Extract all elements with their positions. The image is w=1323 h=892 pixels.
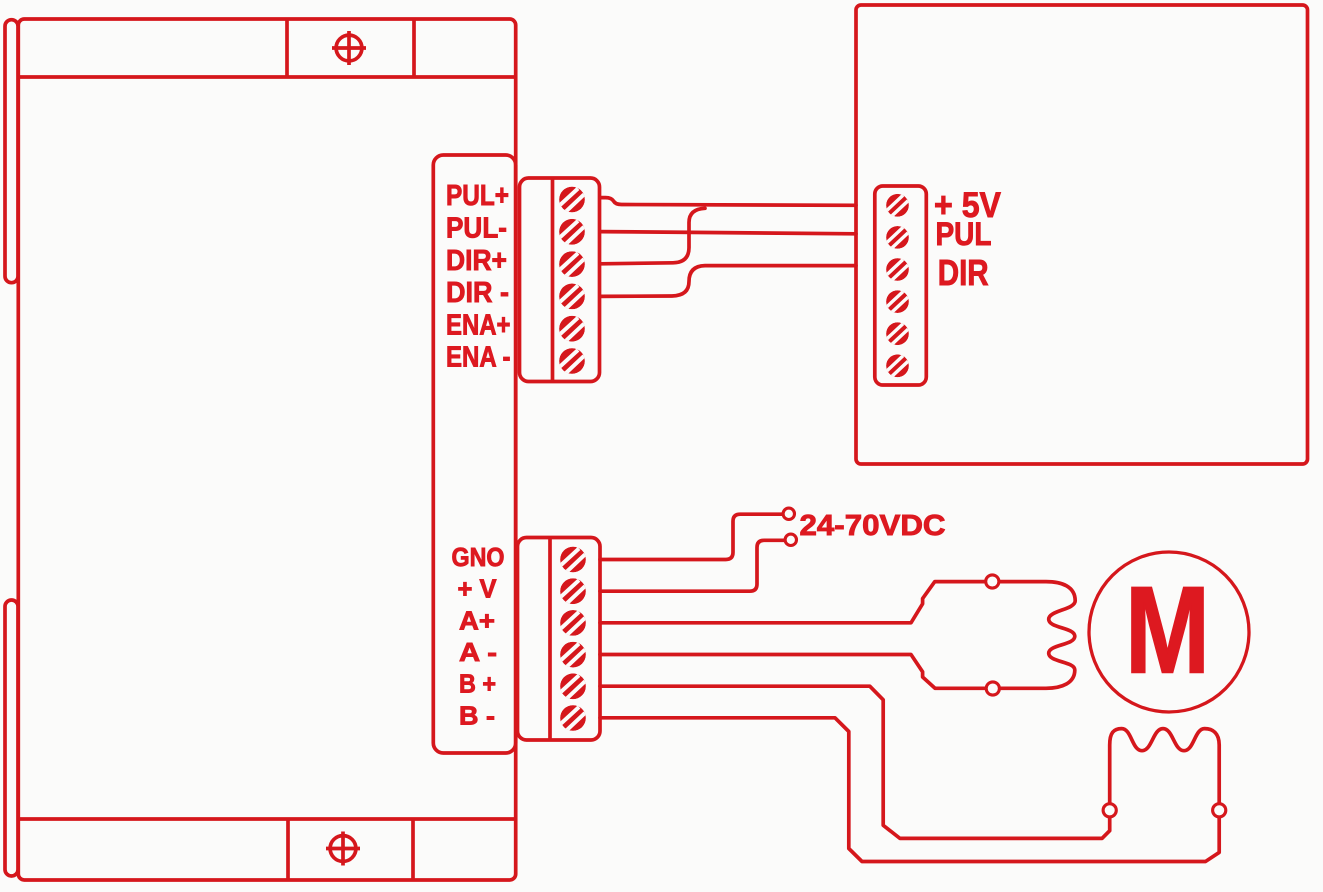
- svg-text:A -: A -: [459, 637, 497, 667]
- svg-text:M: M: [1125, 563, 1210, 700]
- svg-text:+ V: + V: [458, 574, 498, 604]
- svg-text:DIR -: DIR -: [446, 277, 509, 309]
- svg-text:PUL-: PUL-: [446, 213, 507, 245]
- svg-text:DIR: DIR: [938, 252, 989, 293]
- svg-text:ENA+: ENA+: [446, 309, 511, 341]
- svg-text:PUL+: PUL+: [446, 180, 509, 212]
- svg-text:A+: A+: [459, 605, 495, 635]
- svg-text:PUL: PUL: [936, 216, 992, 252]
- svg-text:24-70VDC: 24-70VDC: [800, 510, 946, 542]
- svg-text:B +: B +: [459, 669, 496, 699]
- svg-text:GNO: GNO: [452, 542, 505, 572]
- svg-text:B -: B -: [459, 700, 495, 730]
- svg-text:DIR+: DIR+: [446, 245, 507, 277]
- svg-text:ENA -: ENA -: [446, 342, 511, 374]
